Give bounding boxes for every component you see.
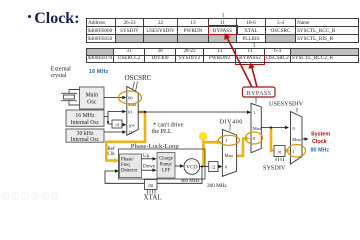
svg-text:LPF: LPF xyxy=(162,169,171,174)
svg-text:Pump/: Pump/ xyxy=(160,163,173,168)
yellow arrow: SYSDIV divider output into USESYSDIV input 1 xyxy=(285,149,287,152)
svg-text:200 MHz: 200 MHz xyxy=(207,183,227,189)
yellow arrowhead into phase/freq detector xyxy=(114,158,119,163)
svg-text:Clock: Clock xyxy=(312,139,327,145)
USESYSDIV mux xyxy=(291,112,303,165)
VCO oscillator circle xyxy=(184,159,200,175)
svg-text:Mux: Mux xyxy=(225,153,234,158)
divider /2 box xyxy=(209,162,218,172)
faint viewer navigation icons bottom-left xyxy=(2,193,59,200)
svg-text:1: 1 xyxy=(253,110,256,115)
red highlight box around BYPASS2 cell (table 2) xyxy=(235,55,265,65)
red arrow from BYPASS box to BYPASS2 cell in table 2 xyxy=(252,66,258,87)
svg-text:System: System xyxy=(311,132,330,138)
yellow ellipse highlight on DIV400 input 1 xyxy=(219,135,240,145)
svg-text:0: 0 xyxy=(293,126,296,131)
svg-text:/4: /4 xyxy=(115,123,119,129)
svg-text:400 MHz: 400 MHz xyxy=(181,179,201,184)
divider /4 box xyxy=(112,120,122,128)
svg-text:Phase-Lock-Loop: Phase-Lock-Loop xyxy=(131,143,180,150)
svg-text:10*: 10* xyxy=(128,123,136,128)
svg-text:/n: /n xyxy=(278,151,282,156)
wire: 16MHz internal osc output with junction xyxy=(104,112,124,125)
yellow arrowhead into DIV400 input 1 xyxy=(217,140,222,145)
bit value "1" above BYPASS2 column of second table xyxy=(253,42,256,49)
DIV400 mux xyxy=(222,129,236,176)
register table SYSCTL_RCC2_R xyxy=(86,48,359,63)
svg-text:* can't drive: * can't drive xyxy=(153,122,184,129)
SYSDIV divider box /n xyxy=(274,146,285,157)
16 MHz internal oscillator box xyxy=(66,110,104,126)
svg-text:VCO: VCO xyxy=(186,165,197,171)
main oscillator box xyxy=(80,87,105,109)
OSCSRC select control lines xyxy=(133,82,135,91)
junction on mux output for PLL ref tap xyxy=(144,111,146,113)
wire: /2 output to DIV400 mux input 0 xyxy=(218,166,220,168)
svg-text:0: 0 xyxy=(253,136,256,141)
svg-text:16 MHz: 16 MHz xyxy=(75,113,95,119)
wire: USESYSDIV output to system clock xyxy=(302,138,306,140)
svg-text:/2: /2 xyxy=(211,165,215,171)
yellow ellipse highlight on BYPASS input 0 xyxy=(246,132,263,144)
crystal X1 symbol xyxy=(61,90,80,106)
OSCSRC mux xyxy=(127,87,138,136)
svg-text:OSCSRC: OSCSRC xyxy=(125,74,152,82)
svg-text:Phase/: Phase/ xyxy=(121,158,134,163)
register table SYSCTL_RCC_R / SYSCTL_RIS_R xyxy=(86,18,359,43)
svg-text:crystal: crystal xyxy=(51,73,67,79)
svg-text:Main: Main xyxy=(85,93,98,99)
yellow arrowhead into SYSDIV divider box xyxy=(271,148,275,152)
XTAL bus ticks into /m xyxy=(148,190,156,194)
svg-text:30 kHz: 30 kHz xyxy=(77,131,94,137)
svg-text:1: 1 xyxy=(293,149,296,154)
svg-text:DIV400: DIV400 xyxy=(220,118,243,125)
svg-text:80 MHz: 80 MHz xyxy=(311,147,330,153)
svg-text:Mux: Mux xyxy=(128,102,137,107)
wire: OSCSRC mux output to BYPASS mux input 1 xyxy=(138,111,248,113)
svg-text:11*: 11* xyxy=(128,130,135,135)
svg-text:External: External xyxy=(51,67,72,73)
svg-text:Mux: Mux xyxy=(292,137,301,142)
svg-text:USESYSDIV: USESYSDIV xyxy=(269,101,304,108)
svg-text:01: 01 xyxy=(128,109,133,114)
feedback wire: VCO output down through /m to phase detector xyxy=(105,167,202,184)
wire: main osc to OSCSRC mux input 00 xyxy=(104,97,124,99)
svg-text:00: 00 xyxy=(128,96,133,101)
svg-text:BYPASS: BYPASS xyxy=(247,91,272,97)
yellow highlight: VCO 400MHz path up to DIV400 mux input 1 xyxy=(204,138,218,166)
svg-text:Internal Osc: Internal Osc xyxy=(71,137,100,143)
svg-text:16 MHz: 16 MHz xyxy=(89,69,108,75)
red arrow from BYPASS box to BYPASS cell in table 1 xyxy=(227,37,253,88)
svg-text:SYSDIV: SYSDIV xyxy=(263,165,286,172)
bit value "1" above BYPASS column of first table xyxy=(222,12,225,19)
wire: charge pump to VCO xyxy=(175,165,181,167)
svg-text:Detector: Detector xyxy=(121,169,138,174)
yellow ellipse highlight on OSCSRC input 00 xyxy=(119,91,142,104)
svg-text:1: 1 xyxy=(225,138,228,143)
svg-text:Internal Osc: Internal Osc xyxy=(71,120,100,126)
svg-text:Charge: Charge xyxy=(159,157,173,162)
30 kHz internal oscillator box xyxy=(66,129,104,142)
svg-text:Ref: Ref xyxy=(108,147,116,152)
svg-text:/m: /m xyxy=(148,184,153,189)
USESYSDIV select control line xyxy=(296,108,298,113)
red highlight box around BYPASS cell (table 1) xyxy=(208,25,238,35)
svg-text:Up: Up xyxy=(143,154,150,159)
wire: 30kHz internal osc to OSCSRC mux input 11* xyxy=(104,131,124,133)
slide title "Clock:" xyxy=(28,15,31,18)
svg-text:Freq: Freq xyxy=(121,163,130,168)
svg-text:Clk: Clk xyxy=(108,152,116,157)
charge pump / LPF box xyxy=(157,153,175,179)
svg-text:XTAL: XTAL xyxy=(144,194,162,202)
yellow highlight: ref-clk path from OSCSRC mux output down into PLL xyxy=(106,112,145,161)
yellow highlight: DIV400 output up to BYPASS mux input 0 xyxy=(237,139,247,156)
svg-text:Osc: Osc xyxy=(87,100,97,106)
phase/freq detector box xyxy=(120,154,142,178)
BYPASS mux xyxy=(251,103,261,152)
SYSDIV bus ticks xyxy=(276,158,284,162)
svg-text:0: 0 xyxy=(225,164,228,169)
Phase-Lock-Loop outer box xyxy=(119,149,206,179)
BYPASS mux select control line xyxy=(255,97,257,104)
divider /m box xyxy=(145,180,158,190)
bright yellow junction dot on 400MHz riser xyxy=(199,132,207,140)
yellow arrowhead into BYPASS input 0 xyxy=(245,136,250,141)
DIV400 select control line xyxy=(229,124,232,131)
wire: BYPASS mux output to USESYSDIV input 0 xyxy=(261,127,286,129)
BYPASS callout box (red) xyxy=(243,87,276,97)
svg-text:Down: Down xyxy=(143,165,156,170)
svg-text:the PLL: the PLL xyxy=(152,128,172,135)
svg-text:Mux: Mux xyxy=(253,126,262,131)
yellow ellipse highlight on USESYSDIV input 1 xyxy=(288,145,306,158)
yellow highlight: BYPASS output down through SYSDIV divider xyxy=(271,128,273,151)
wire: VCO output to /2 divider xyxy=(200,166,209,168)
